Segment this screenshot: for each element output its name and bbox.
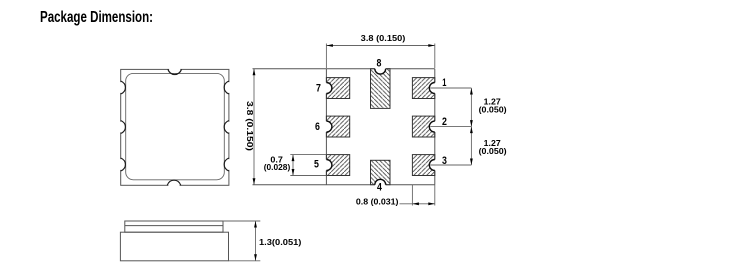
pad 7 notch arc (326, 83, 332, 94)
dimension 0.8: arrowheads (412, 202, 434, 205)
pin 2 leader line (430, 126, 471, 128)
pad 6 notch arc (326, 121, 332, 132)
svg-text:1.3(0.051): 1.3(0.051) (259, 237, 302, 247)
dimension 3.8 left: arrowheads (253, 69, 256, 185)
svg-text:(0.028): (0.028) (264, 162, 291, 172)
pad number labels (314, 58, 447, 194)
left-edge notch arc (lower) (121, 158, 126, 171)
side view: base body (120, 232, 228, 261)
right-edge notch arc (lower) (224, 158, 229, 171)
svg-text:Package Dimension:: Package Dimension: (40, 9, 153, 26)
svg-text:6: 6 (315, 121, 320, 133)
side view: lid seam line (125, 225, 223, 227)
pads (hatched) (326, 69, 434, 185)
pad 3 notch arc (429, 160, 435, 171)
dimension 0.8: extension + dimension lines (400, 185, 435, 206)
svg-text:0.8 (0.031): 0.8 (0.031) (356, 197, 399, 207)
pad 1 (412, 78, 434, 99)
pad 2 notch arc (429, 121, 435, 132)
left-edge notch arc (upper) (121, 81, 126, 94)
pad 5 (326, 155, 349, 176)
svg-text:(0.050): (0.050) (479, 104, 507, 114)
pad 8 notch arc (375, 69, 386, 74)
dimension 1.3: dimension line (255, 221, 257, 261)
top view: lid seam rounded rectangle (126, 73, 225, 179)
top-edge notch arc (168, 69, 182, 74)
pad 8 (371, 69, 391, 109)
dimension 1.27: arrowheads (470, 88, 473, 165)
svg-text:5: 5 (314, 159, 319, 171)
dimension 1.3: bottom extension line (229, 260, 261, 262)
pad castellation gap erasers (321, 63, 440, 190)
pad castellation semicircle arcs (326, 69, 434, 185)
right-edge notch arc (middle) (224, 121, 229, 134)
side view: lid block (125, 221, 223, 232)
dimension 1.3: top extension line (223, 220, 260, 222)
pad 7 (326, 78, 349, 99)
right-edge notch arc (upper) (224, 81, 229, 94)
pad 4 (371, 160, 391, 184)
dimension 1.27 lower: dimension line (470, 127, 472, 165)
top view: castellation gap erasers (115, 64, 234, 191)
pin 3 leader line (430, 164, 471, 166)
left-edge notch arc (middle) (121, 121, 126, 134)
pad 3 (412, 155, 434, 176)
pad 6 (326, 116, 349, 137)
pad 1 notch arc (429, 83, 435, 94)
dimension 3.8 top: arrowheads (326, 44, 434, 47)
dimension 1.3: arrowheads (254, 221, 257, 261)
dimension 3.8 left: dimension line (253, 69, 255, 185)
bottom view: body square outline with extension tails (253, 69, 435, 185)
svg-text:1: 1 (442, 77, 446, 89)
dimension 1.27 upper: value texts (479, 97, 507, 115)
top view: castellation notch arcs (121, 69, 229, 185)
pad 2 (412, 116, 434, 137)
dimension 1.27 upper: dimension line (470, 88, 472, 127)
svg-text:4: 4 (377, 182, 383, 194)
svg-text:3.8 (0.150): 3.8 (0.150) (361, 33, 406, 43)
svg-text:7: 7 (316, 83, 321, 95)
svg-text:2: 2 (442, 116, 447, 128)
svg-text:8: 8 (377, 58, 382, 70)
pad 5 notch arc (326, 160, 332, 171)
svg-text:3.8 (0.150): 3.8 (0.150) (245, 101, 255, 151)
dimension 0.7: arrowheads (292, 155, 295, 176)
pad 4 notch arc (375, 179, 386, 184)
bottom-edge notch arc (167, 180, 181, 185)
dimension 1.27 lower: value texts (479, 138, 507, 156)
dimension 3.8 top: extension + dimension lines (326, 44, 434, 69)
svg-text:(0.050): (0.050) (479, 146, 507, 156)
pin 1 leader line (430, 87, 471, 89)
dimension 0.7: extension + dimension lines (290, 155, 326, 176)
top view: package outer outline (121, 69, 229, 185)
